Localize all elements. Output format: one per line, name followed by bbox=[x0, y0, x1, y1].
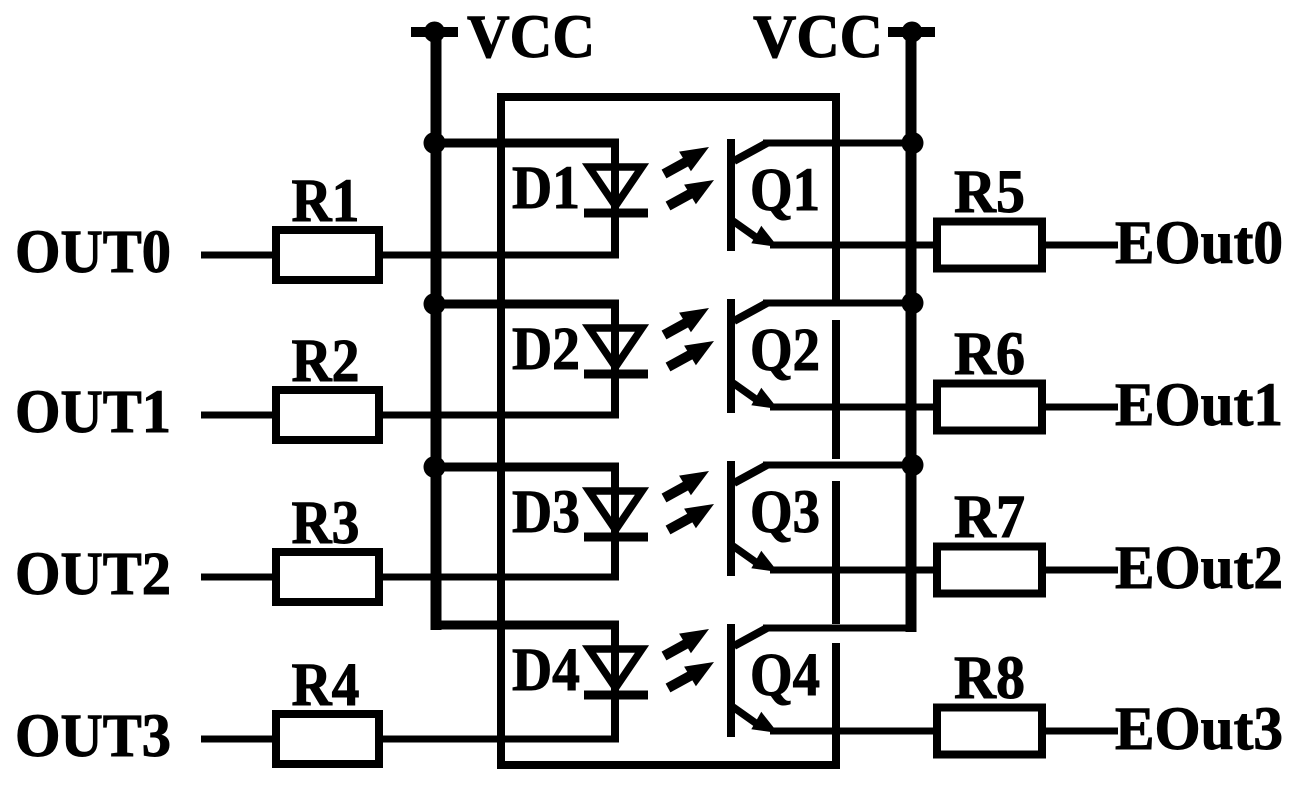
svg-text:OUT0: OUT0 bbox=[15, 219, 171, 286]
diode D2 triangle bbox=[589, 328, 642, 367]
svg-text:D3: D3 bbox=[512, 479, 580, 546]
transistor Q2 emitter diagonal bbox=[733, 383, 757, 400]
svg-text:R2: R2 bbox=[292, 328, 360, 395]
diode D4 axis wire bbox=[611, 625, 619, 743]
svg-text:R1: R1 bbox=[292, 168, 360, 235]
wire Q4 emitter to R8 bbox=[770, 728, 941, 735]
wire Q2 collector to right rail bbox=[763, 300, 916, 307]
light arrow upper channel 3 head bbox=[679, 471, 709, 495]
optocoupler IC box - right edge segment 4 bbox=[832, 643, 840, 769]
light arrow lower channel 2 head bbox=[684, 341, 714, 365]
wire R4 to D4 cathode bbox=[379, 736, 619, 743]
svg-text:EOut2: EOut2 bbox=[1115, 535, 1283, 602]
light arrow lower channel 3 head bbox=[684, 504, 714, 528]
optocoupler IC box - left edge bbox=[497, 93, 505, 769]
wire OUT0 to R1 bbox=[201, 252, 278, 259]
diode D3 triangle bbox=[589, 491, 642, 530]
svg-text:OUT3: OUT3 bbox=[15, 703, 171, 770]
svg-text:D1: D1 bbox=[512, 155, 580, 222]
wire OUT3 to R4 bbox=[201, 736, 278, 743]
light arrow lower channel 1 shaft bbox=[668, 189, 699, 206]
diode D3 axis wire bbox=[611, 467, 619, 581]
junction dot right rail row 3 bbox=[902, 454, 924, 476]
svg-text:VCC: VCC bbox=[467, 4, 595, 71]
wire Q3 emitter to R7 bbox=[770, 567, 941, 574]
diode D1 axis wire bbox=[611, 143, 619, 259]
diode D1 cathode bar bbox=[584, 209, 648, 218]
svg-text:OUT2: OUT2 bbox=[15, 541, 171, 608]
wire left rail to D1 anode bbox=[431, 139, 619, 148]
junction dot left rail row 3 bbox=[424, 456, 446, 478]
wire R2 to D2 cathode bbox=[379, 412, 619, 419]
svg-text:OUT1: OUT1 bbox=[15, 379, 171, 446]
light arrow lower channel 1 head bbox=[684, 180, 714, 204]
svg-text:R8: R8 bbox=[954, 645, 1025, 712]
optocoupler IC box - top edge bbox=[497, 93, 840, 101]
transistor Q4 collector diagonal bbox=[734, 628, 767, 646]
transistor Q3 base bar bbox=[727, 461, 735, 576]
svg-text:EOut0: EOut0 bbox=[1115, 210, 1283, 277]
power symbol VCC right - crossbar bbox=[888, 27, 935, 37]
wire R1 to D1 cathode bbox=[379, 252, 619, 259]
diode D4 cathode bar bbox=[584, 691, 648, 700]
svg-text:EOut1: EOut1 bbox=[1115, 372, 1283, 439]
junction dot left rail row 2 bbox=[424, 293, 446, 315]
optocoupler IC box - right edge segment 3 bbox=[832, 481, 840, 624]
svg-text:Q3: Q3 bbox=[750, 479, 820, 546]
light arrow upper channel 3 shaft bbox=[664, 482, 693, 498]
transistor Q2 emitter arrow bbox=[751, 388, 778, 409]
svg-text:R7: R7 bbox=[954, 484, 1025, 551]
svg-text:EOut3: EOut3 bbox=[1115, 696, 1283, 763]
svg-text:R4: R4 bbox=[292, 652, 360, 719]
diode D4 triangle bbox=[589, 649, 642, 688]
wire right VCC rail (vertical) bbox=[906, 32, 917, 632]
light arrow lower channel 4 head bbox=[684, 662, 714, 686]
resistor R6 body bbox=[937, 384, 1042, 431]
svg-text:Q2: Q2 bbox=[750, 317, 820, 384]
svg-text:Q4: Q4 bbox=[750, 642, 820, 709]
light arrow upper channel 1 head bbox=[679, 147, 709, 171]
light arrow upper channel 4 shaft bbox=[664, 640, 693, 656]
resistor R1 body bbox=[276, 230, 379, 280]
light arrow upper channel 1 shaft bbox=[664, 158, 693, 174]
light arrow upper channel 4 head bbox=[679, 629, 709, 653]
optocoupler IC box - bottom edge bbox=[497, 761, 840, 769]
junction dot left rail row 1 bbox=[424, 132, 446, 154]
transistor Q3 emitter diagonal bbox=[733, 546, 757, 563]
svg-text:D4: D4 bbox=[512, 637, 580, 704]
svg-text:D2: D2 bbox=[512, 316, 580, 383]
wire left rail elbow to D4 anode bbox=[431, 621, 619, 630]
wire left rail to D2 anode bbox=[431, 300, 619, 309]
light arrow upper channel 2 head bbox=[679, 308, 709, 332]
transistor Q1 collector diagonal bbox=[734, 143, 767, 161]
wire OUT1 to R2 bbox=[201, 412, 278, 419]
transistor Q2 collector diagonal bbox=[734, 303, 767, 321]
transistor Q1 emitter diagonal bbox=[733, 221, 757, 238]
resistor R4 body bbox=[276, 714, 379, 764]
resistor R7 body bbox=[937, 547, 1042, 594]
wire OUT2 to R3 bbox=[201, 574, 278, 581]
resistor R3 body bbox=[276, 552, 379, 602]
resistor R5 body bbox=[937, 222, 1042, 269]
light arrow upper channel 2 shaft bbox=[664, 319, 693, 335]
transistor Q1 base bar bbox=[727, 139, 735, 251]
light arrow lower channel 3 shaft bbox=[668, 513, 699, 530]
optocoupler IC box - right edge segment 1 bbox=[832, 93, 840, 307]
junction dot right rail row 2 bbox=[902, 292, 924, 314]
wire R5 to EOut0 bbox=[1042, 242, 1118, 249]
svg-text:R3: R3 bbox=[292, 490, 360, 557]
optocoupler IC box - right edge segment 2 bbox=[832, 320, 840, 459]
transistor Q4 emitter diagonal bbox=[733, 707, 757, 724]
wire R6 to EOut1 bbox=[1042, 404, 1118, 411]
transistor Q3 collector diagonal bbox=[734, 465, 767, 483]
wire left rail to D3 anode bbox=[431, 463, 619, 472]
wire R8 to EOut3 bbox=[1042, 728, 1118, 735]
svg-text:R5: R5 bbox=[954, 159, 1025, 226]
transistor Q2 base bar bbox=[727, 299, 735, 413]
junction dot right rail row 1 bbox=[902, 132, 924, 154]
diode D3 cathode bar bbox=[584, 533, 648, 542]
wire R3 to D3 cathode bbox=[379, 574, 619, 581]
wire Q1 emitter to R5 bbox=[770, 242, 941, 249]
transistor Q4 emitter arrow bbox=[751, 712, 778, 733]
light arrow lower channel 2 shaft bbox=[668, 350, 699, 367]
svg-text:R6: R6 bbox=[954, 321, 1025, 388]
transistor Q1 emitter arrow bbox=[751, 226, 778, 247]
svg-text:VCC: VCC bbox=[753, 4, 883, 71]
wire left VCC rail (vertical) bbox=[431, 32, 442, 630]
power symbol VCC left - dot bbox=[424, 22, 445, 43]
wire Q4 collector to right rail bbox=[763, 625, 916, 632]
diode D2 cathode bar bbox=[584, 370, 648, 379]
wire Q1 collector to right rail bbox=[763, 140, 916, 147]
diode D2 axis wire bbox=[611, 304, 619, 419]
svg-text:Q1: Q1 bbox=[750, 157, 820, 224]
wire R7 to EOut2 bbox=[1042, 567, 1118, 574]
resistor R2 body bbox=[276, 390, 379, 440]
wire Q2 emitter to R6 bbox=[770, 404, 941, 411]
diode D1 triangle bbox=[589, 167, 642, 206]
transistor Q3 emitter arrow bbox=[751, 551, 778, 572]
resistor R8 body bbox=[937, 708, 1042, 755]
power symbol VCC right - dot bbox=[902, 22, 923, 43]
light arrow lower channel 4 shaft bbox=[668, 671, 699, 688]
wire Q3 collector to right rail bbox=[763, 462, 916, 469]
transistor Q4 base bar bbox=[727, 624, 735, 737]
power symbol VCC left - crossbar bbox=[411, 27, 458, 37]
